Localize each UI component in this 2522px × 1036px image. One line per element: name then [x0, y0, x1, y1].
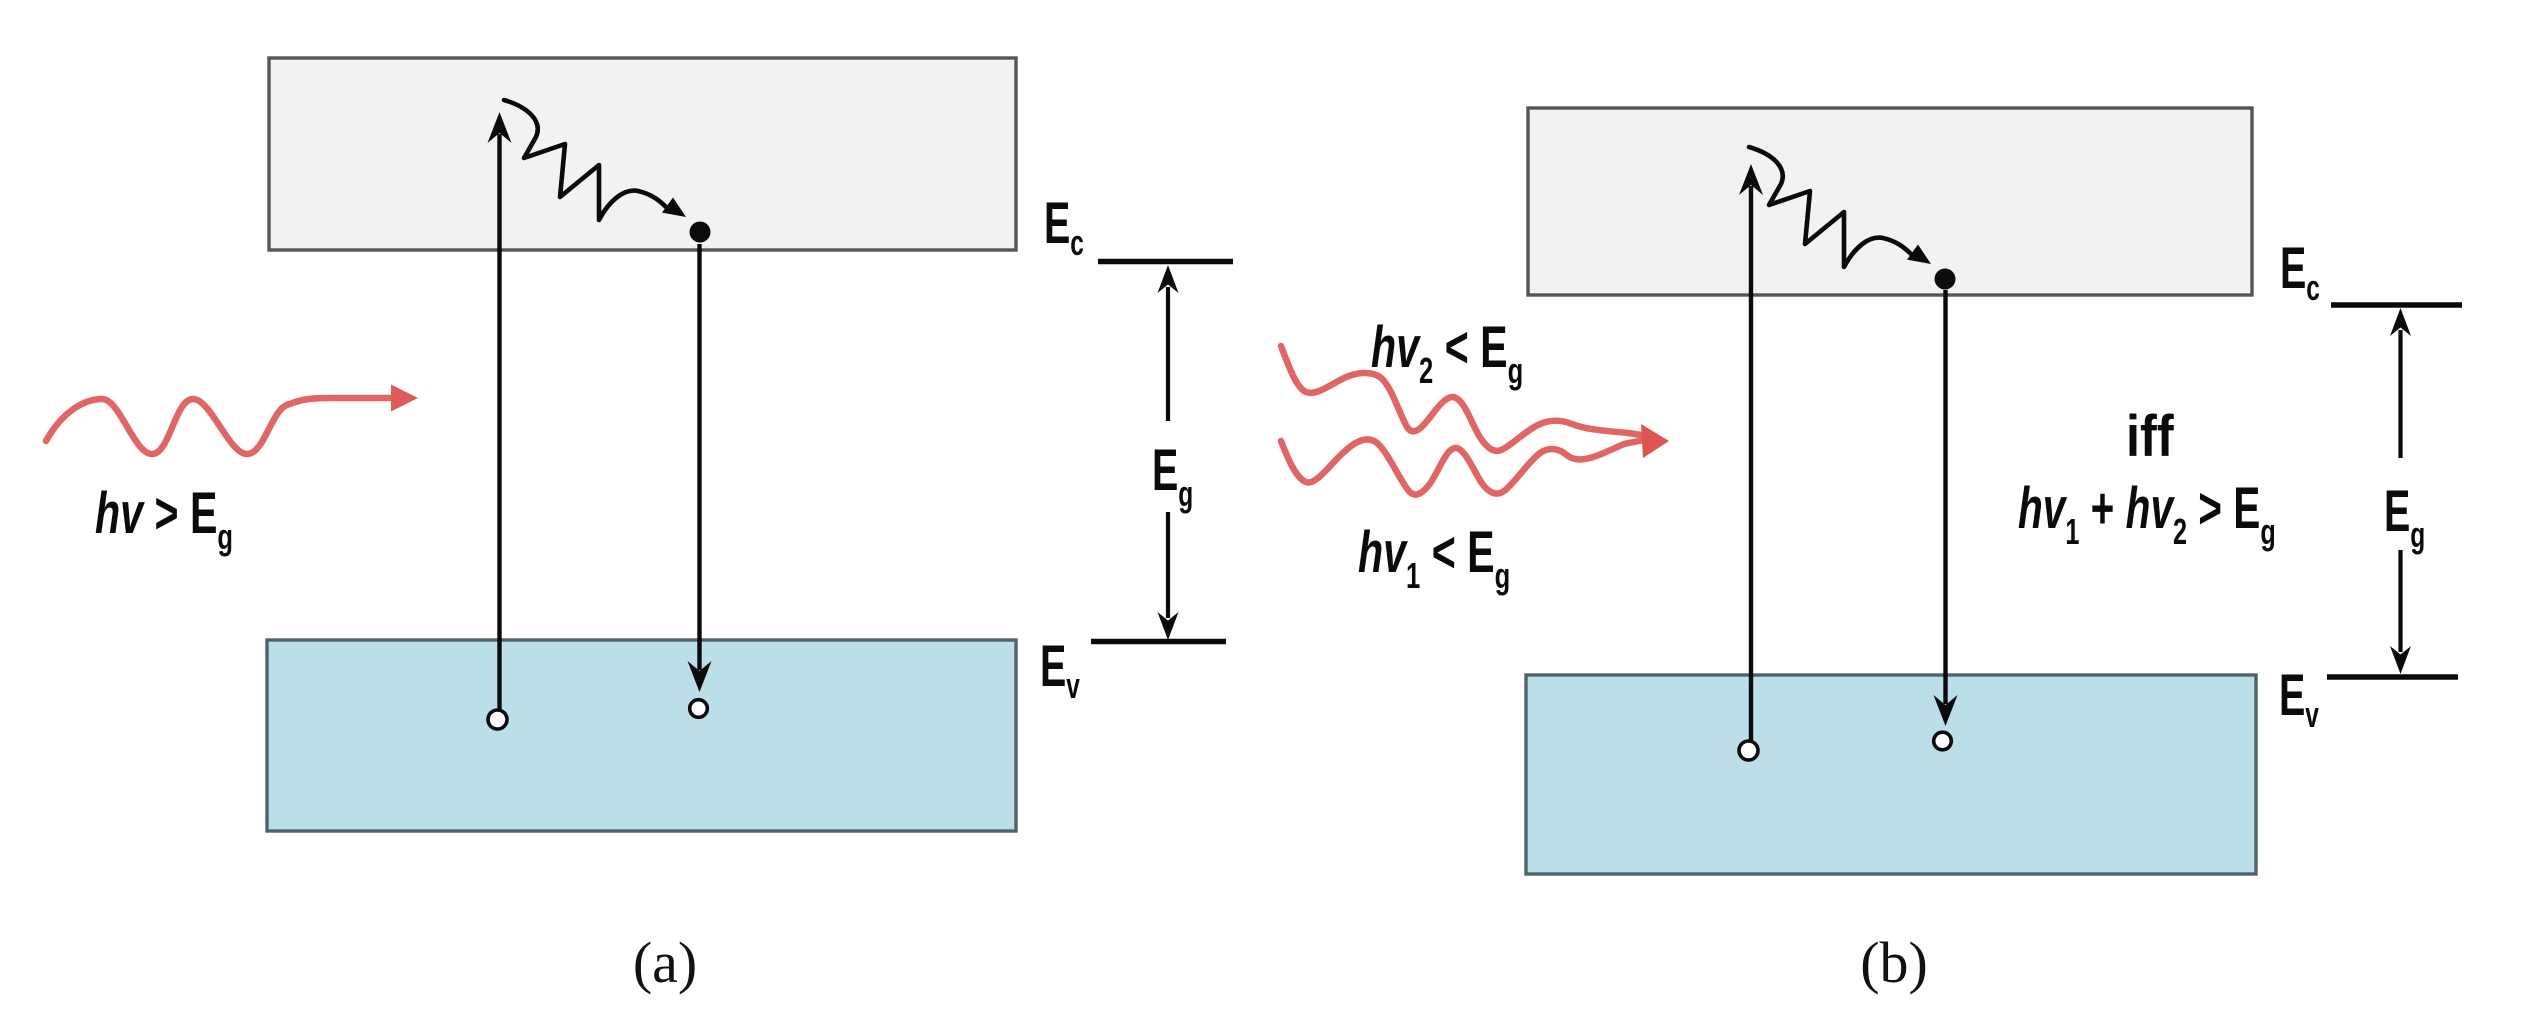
svg-text:hv2 < Eg: hv2 < Eg	[1371, 314, 1523, 391]
svg-text:(b): (b)	[1860, 930, 1928, 995]
svg-text:(a): (a)	[633, 930, 697, 995]
svg-text:iff: iff	[2126, 404, 2174, 469]
svg-text:hv1 + hv2 > Eg: hv1 + hv2 > Eg	[2018, 476, 2276, 552]
svg-text:hv > Eg: hv > Eg	[95, 480, 233, 557]
svg-text:hv1 < Eg: hv1 < Eg	[1358, 519, 1510, 596]
